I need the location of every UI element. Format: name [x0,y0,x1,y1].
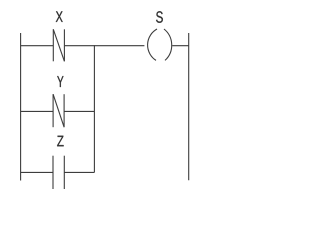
left power rail L1 [20,33,22,181]
wire rung3 left segment [21,171,53,173]
label Z [57,136,63,147]
label X [56,11,63,22]
wire rung3 right segment [64,171,94,173]
label Y [57,76,63,87]
wire parallel branch bus [93,45,95,172]
contact Z (normally-open) [53,156,64,189]
wire coil to right rail [172,45,189,47]
label S [156,11,163,22]
wire rung1 right segment to coil [64,45,144,47]
wire rung2 right segment [64,110,94,112]
contact X (normally-closed) [53,29,64,61]
contact Y (normally-closed) [53,94,64,127]
coil S [148,29,172,60]
wire rung1 left segment [21,45,54,47]
wire rung2 left segment [21,110,54,112]
right power rail L2 [188,33,190,180]
